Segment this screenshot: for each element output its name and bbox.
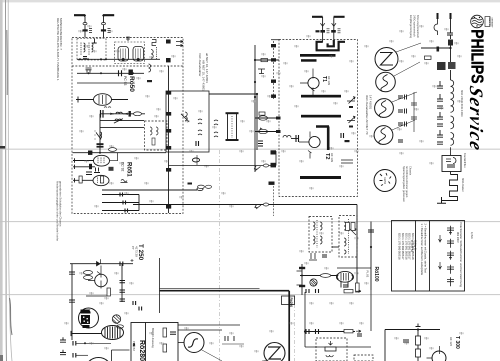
tube Rö280 striped anode bbox=[102, 326, 124, 340]
grid wire b bbox=[73, 165, 95, 169]
rail cap a dark bbox=[299, 267, 305, 269]
tube Rö100 envelope bbox=[337, 271, 353, 282]
inner can resistor bbox=[152, 138, 155, 145]
plus polarity mark bbox=[131, 259, 134, 262]
junction dot bbox=[449, 47, 451, 49]
cap C56 bbox=[357, 334, 362, 336]
wire cap dark a bbox=[271, 163, 277, 168]
rail cap t2 bbox=[69, 300, 75, 302]
cap C60 bbox=[120, 262, 123, 267]
W4 waveform bbox=[379, 128, 386, 145]
cathode components cluster bbox=[86, 172, 92, 175]
antenna A4 downlead bbox=[333, 17, 335, 42]
label Rö50 bbox=[123, 76, 135, 92]
IF transformer top bar bbox=[226, 112, 239, 114]
legend text col3 bbox=[459, 223, 463, 288]
resistor R12 bbox=[261, 59, 268, 62]
rail coil vertical bbox=[96, 132, 102, 139]
svg-text:Service: Service bbox=[465, 84, 486, 154]
rail cap b dark bbox=[299, 285, 305, 287]
sample cluster d bbox=[398, 140, 403, 142]
can M2 coil bbox=[344, 222, 346, 254]
legend divider 2 bbox=[429, 221, 431, 292]
transformer core black top bar bbox=[81, 310, 91, 314]
Philips shield emblem bbox=[471, 15, 484, 28]
legend symbol arrow 1 bbox=[439, 235, 442, 242]
input filter cap bbox=[83, 57, 87, 59]
small hatched tube bbox=[112, 315, 120, 323]
svg-text:T1: T1 bbox=[321, 76, 327, 82]
svg-text:AF 126: AF 126 bbox=[449, 337, 453, 346]
input filter coil 2 loops bbox=[92, 43, 94, 52]
IF output connector bbox=[197, 187, 203, 190]
svg-text:Rö280 H: Rö280 H bbox=[138, 340, 145, 361]
box edge cap dark 2 bbox=[166, 58, 171, 62]
gutter tick mark bbox=[0, 146, 5, 149]
tube socket circle V1 bbox=[374, 170, 396, 192]
staircase ground bbox=[437, 197, 446, 204]
book gutter line 2 bbox=[8, 0, 12, 361]
capacitor C23 bbox=[345, 140, 350, 142]
inline oval b bbox=[263, 203, 268, 206]
capacitor C3 bbox=[86, 68, 92, 73]
drum coil dashed can bbox=[115, 42, 145, 64]
junction dot bbox=[417, 328, 419, 330]
bottom tube arc bbox=[85, 358, 112, 361]
choke coil L8 bbox=[283, 136, 291, 138]
resistor R23 hatched bbox=[448, 62, 456, 69]
label UHF box rotated bbox=[365, 95, 373, 135]
svg-text:60Ω 240Ω 60Ω 240Ω: 60Ω 240Ω 60Ω 240Ω bbox=[460, 90, 464, 116]
label Rö100 bbox=[373, 267, 379, 282]
AGC wire row a bbox=[102, 194, 139, 196]
rail T mark bbox=[297, 271, 302, 285]
chain labels bbox=[460, 90, 464, 116]
capacitor C1 on downlead dark bbox=[83, 29, 88, 31]
trimmer caps dark 2 bbox=[349, 126, 353, 128]
resistor R2 marks bbox=[108, 29, 111, 33]
wire right rail bbox=[370, 290, 372, 331]
resistor R50 bbox=[346, 223, 350, 231]
chain caps 1 bbox=[437, 81, 443, 88]
UHF bypass dashed rail bbox=[273, 41, 275, 100]
third row wire bbox=[100, 127, 144, 129]
bus junction bbox=[99, 152, 101, 154]
capacitor C13 dark bbox=[166, 129, 171, 133]
comp above rail bbox=[416, 324, 421, 327]
svg-text:Bildrohr-Fassung: Bildrohr-Fassung bbox=[151, 328, 155, 348]
IF out arrow 1 bbox=[176, 40, 183, 42]
capacitor C5 dark bbox=[129, 70, 133, 76]
legend symbol row 4 bbox=[447, 265, 454, 274]
rail cap dark pair bbox=[97, 143, 104, 145]
cap C29 dark bbox=[276, 130, 281, 133]
left rail bbox=[71, 264, 73, 340]
bottom caps c3 bbox=[73, 341, 76, 346]
row2 junction dots bbox=[88, 72, 135, 74]
chain caps 2 bbox=[437, 94, 443, 101]
top trimmer on box edge bbox=[126, 37, 130, 42]
transistor T300 circle bbox=[432, 351, 446, 361]
antenna A4 matching arrow bbox=[332, 23, 336, 26]
wire to staircase bbox=[450, 172, 452, 175]
pot symbol bbox=[325, 347, 336, 351]
bottom caps c4 bbox=[73, 353, 76, 358]
test point circle W3 bbox=[375, 99, 394, 118]
VHF tuner dashed enclosure bbox=[72, 38, 183, 214]
wire cap dark b bbox=[271, 150, 277, 154]
grid wire c bbox=[73, 178, 93, 182]
trimmer caps dark bbox=[349, 106, 353, 108]
W3 waveform bbox=[379, 101, 386, 118]
transistor T300 leads bbox=[427, 346, 440, 358]
ground stub bbox=[258, 69, 265, 74]
antenna A3 matching arrow bbox=[320, 23, 324, 26]
wire tuner row 2 bbox=[77, 72, 144, 74]
resistor R20 dark bbox=[448, 40, 453, 46]
emitter rail bbox=[121, 264, 123, 302]
svg-text:GERMANY: GERMANY bbox=[490, 18, 493, 29]
screen row wire bbox=[100, 120, 144, 122]
svg-text:T 300: T 300 bbox=[454, 336, 460, 349]
output box divider bbox=[145, 323, 147, 361]
diode D1 bbox=[259, 128, 265, 132]
output box frame bbox=[131, 323, 178, 361]
VHF tuner input section divider dashed bbox=[72, 65, 183, 67]
svg-text:4,7kΩ: 4,7kΩ bbox=[470, 232, 473, 239]
tuner ground bus wire bbox=[77, 58, 160, 60]
osc squiggle right bbox=[121, 179, 128, 182]
rail label marks bbox=[94, 130, 96, 140]
scurve waveform bbox=[188, 339, 198, 347]
test point circle W4 bbox=[374, 126, 393, 145]
AGC wire lower bbox=[305, 331, 355, 333]
trimmer TR2 bbox=[347, 116, 355, 123]
resistor R5 bbox=[79, 176, 82, 183]
svg-text:MONCKEBERGSTR. 7: MONCKEBERGSTR. 7 bbox=[59, 18, 63, 50]
can M2 trimmer bbox=[350, 228, 356, 235]
svg-text:PL 83: PL 83 bbox=[366, 271, 370, 278]
resistor R11 marks bbox=[338, 29, 341, 33]
contact filter box bbox=[442, 156, 461, 172]
antenna A2 dipole bar bbox=[103, 15, 114, 16]
svg-text:60Ω-Kabel: 60Ω-Kabel bbox=[461, 178, 465, 192]
component cluster below M1 bbox=[309, 253, 317, 260]
diode D2 bbox=[96, 259, 101, 266]
pointer line 4 bbox=[392, 120, 415, 130]
cap C53 bbox=[316, 289, 319, 293]
transistor T1 leads bbox=[300, 69, 315, 96]
filter loop chain start bbox=[451, 80, 454, 99]
svg-text:T2: T2 bbox=[324, 153, 330, 160]
junction dot v1 bbox=[301, 275, 303, 277]
legend symbol row 5 bbox=[447, 277, 454, 286]
mid bus wire bbox=[73, 152, 167, 154]
tube Rö51a envelope bbox=[94, 155, 110, 166]
capacitor C2 on downlead dark bbox=[101, 29, 106, 31]
pot wiper bbox=[329, 341, 333, 345]
drum coil form B contact bbox=[137, 58, 140, 61]
grid wire a bbox=[73, 158, 94, 162]
resistor R7 bbox=[259, 112, 265, 115]
pot coil bbox=[326, 355, 333, 357]
shieldbox feed wire bbox=[209, 93, 257, 95]
tube Rö50 electrodes bbox=[99, 95, 106, 104]
junction dots bbox=[84, 342, 86, 344]
label Rö280H bbox=[138, 340, 145, 361]
can M2 core bbox=[348, 219, 350, 254]
label T300 sub bbox=[449, 337, 453, 346]
svg-text:961 230V: 961 230V bbox=[456, 232, 459, 243]
UHF line bar B4 bbox=[301, 115, 341, 118]
resistor R6 bbox=[101, 176, 104, 183]
grid stopper cluster circle bbox=[310, 279, 317, 286]
contrast pot dashed box bbox=[316, 338, 347, 361]
Service script rotated bbox=[465, 84, 486, 154]
UHF left feed rail bbox=[254, 45, 256, 172]
box inner cap bbox=[170, 332, 176, 334]
book gutter line left bbox=[6, 0, 7, 361]
resistor R14 oval bbox=[259, 129, 268, 133]
T300 frame top wire bbox=[385, 329, 440, 331]
sample riser wire bbox=[413, 92, 415, 132]
component value labels (illegible at scan scale) bbox=[65, 25, 463, 353]
riser wire bbox=[305, 292, 371, 347]
publisher note text rotated bbox=[56, 18, 63, 81]
grid cap marks bbox=[104, 106, 111, 109]
bus junction dots bbox=[79, 58, 107, 60]
balun terminal 1 bbox=[437, 13, 439, 19]
capacitor C41 dark bbox=[437, 47, 440, 52]
UHF line meander bottom bbox=[316, 42, 345, 51]
UHF line bar B2 bbox=[301, 59, 317, 62]
cathode cluster a bbox=[94, 168, 100, 173]
resistor R52 bbox=[320, 274, 330, 278]
anode row resistor oval bbox=[134, 112, 142, 116]
mixer out wire bbox=[341, 160, 353, 163]
tube Rö50 envelope bbox=[94, 94, 112, 106]
resistor R1 marks bbox=[89, 29, 92, 33]
grid cap dark bbox=[89, 164, 92, 169]
drum coil form A hatch bbox=[121, 49, 126, 59]
capacitor C8 bbox=[120, 193, 123, 197]
antenna A1 connector bbox=[83, 23, 87, 25]
capacitor C20b bbox=[316, 30, 320, 32]
scurve circle W5 bbox=[184, 333, 204, 353]
IF coil L7 with arrow bbox=[181, 112, 189, 122]
chain caps 3 bbox=[437, 112, 443, 119]
filter loop 3 bbox=[451, 116, 454, 129]
junction dot f3 bbox=[254, 96, 256, 98]
gutter brace curve bbox=[10, 298, 13, 335]
rail cap dark pair b bbox=[97, 146, 104, 148]
small comp below box bbox=[196, 155, 198, 165]
svg-text:Gültig für: Gültig für bbox=[413, 240, 417, 251]
svg-text:gesonderten Schaltplan des Cha: gesonderten Schaltplan des Chassis bbox=[59, 181, 63, 227]
T300 frame left wire bbox=[384, 330, 386, 361]
tube pins down bbox=[341, 282, 348, 288]
label T2 bbox=[324, 153, 334, 162]
label Rö280H sub bbox=[132, 341, 136, 351]
shield box IF amp bbox=[166, 91, 209, 152]
coupling cap C51 bbox=[368, 230, 374, 232]
transistor T2 circle bbox=[309, 136, 320, 147]
capacitor C6 dark bbox=[147, 80, 152, 82]
hatch white specks bbox=[83, 317, 88, 323]
bus cap dark bbox=[88, 151, 92, 155]
tube Rö50 grid pin bbox=[76, 97, 94, 103]
transformer diagonal gap bbox=[90, 310, 94, 316]
junction dot f1 bbox=[254, 59, 256, 61]
transistor T60 leads bbox=[88, 266, 101, 289]
capacitor C15 dark bbox=[166, 168, 171, 172]
antenna note rotated bbox=[409, 15, 420, 39]
can M1 coil bottom bbox=[313, 236, 322, 244]
test point circle W1 sawtooth bbox=[375, 48, 398, 71]
cap C28 dark bbox=[276, 117, 281, 120]
UHF line bar B3 bbox=[301, 95, 341, 98]
label T1 bbox=[321, 76, 331, 85]
antenna A3 downlead bbox=[322, 17, 324, 42]
antenna A1 dipole bar bbox=[74, 15, 85, 16]
fold line horizontal 1 bbox=[0, 148, 500, 151]
wire ladder mid bbox=[450, 46, 452, 63]
scurve pointer bbox=[201, 350, 222, 361]
junction bus vertical bbox=[138, 195, 140, 211]
fold line horizontal 3 bbox=[0, 293, 500, 296]
component cluster bbox=[258, 141, 263, 146]
chain caps 4 bbox=[437, 130, 443, 137]
drum coil form A contact bbox=[122, 58, 125, 61]
audio input wire bbox=[70, 263, 133, 265]
UHF tuner dashed enclosure bbox=[279, 40, 358, 197]
label T250 sub bbox=[131, 246, 138, 257]
wire ladder top bbox=[450, 19, 452, 39]
pointer line 1 bbox=[396, 43, 421, 52]
IF out arrow 2 bbox=[176, 44, 183, 46]
capacitor C20 bbox=[320, 30, 325, 33]
resistor R60 oval bbox=[84, 271, 93, 275]
svg-text:AF 139: AF 139 bbox=[330, 153, 334, 162]
transistor T1 circle bbox=[308, 77, 319, 88]
contact filter inner cap bbox=[447, 165, 455, 167]
resistor R62 bbox=[107, 288, 110, 296]
capacitor C4 bbox=[119, 70, 122, 76]
legend symbol row 2 bbox=[447, 239, 454, 248]
cap C62 bbox=[120, 290, 126, 292]
transformer core hatched center bbox=[81, 315, 90, 324]
capacitor C24 dark bbox=[271, 44, 276, 47]
antenna A3 dipole bar bbox=[312, 16, 323, 18]
anode row arrowheads bbox=[110, 113, 127, 115]
screen row coil arrow bbox=[114, 119, 123, 124]
row2 coil bbox=[149, 64, 151, 72]
IF decoupling rail bbox=[168, 66, 170, 213]
inline oval a bbox=[263, 164, 268, 167]
input filter coil 2 bbox=[88, 43, 90, 56]
transistor T2 leads bbox=[299, 132, 312, 159]
junction dot bbox=[304, 330, 306, 332]
label contact filter bbox=[463, 153, 467, 168]
rail caps a bbox=[133, 301, 136, 305]
svg-text:147 43801: 147 43801 bbox=[369, 95, 373, 110]
PHILIPS wordmark rotated bbox=[467, 29, 487, 83]
note text rotated bbox=[402, 166, 412, 202]
cap left bbox=[403, 340, 409, 342]
trimmer TR1 bbox=[347, 97, 355, 104]
socket pins bbox=[380, 173, 392, 186]
input filter coil 1 loops bbox=[84, 43, 86, 52]
tube Rö50 anode wire bbox=[112, 99, 129, 101]
bottom oval resistor bbox=[109, 148, 117, 152]
socket label bbox=[383, 177, 386, 185]
antenna A1 downlead wire bbox=[84, 17, 86, 38]
resistor R10 marks bbox=[327, 29, 330, 33]
page top edge shading bbox=[0, 0, 500, 2]
svg-text:Rö50: Rö50 bbox=[128, 76, 135, 92]
test point circle W6 sawtooth bbox=[262, 343, 285, 361]
anode rail bbox=[370, 222, 372, 291]
T300 inner rail bbox=[417, 330, 419, 361]
input ground T bbox=[92, 39, 96, 44]
capacitor C16 dark bbox=[166, 205, 171, 209]
pointer line 3 bbox=[392, 92, 417, 102]
input filter coil 1 bbox=[80, 43, 82, 56]
box text bbox=[151, 328, 155, 348]
feed wire r1 bbox=[255, 59, 279, 61]
capacitor C22 bbox=[341, 133, 344, 138]
chain caps 2b bbox=[437, 106, 443, 108]
chain caps 4b bbox=[437, 142, 443, 144]
anode row coil with arrows bbox=[111, 112, 126, 114]
video out wire upper bbox=[160, 288, 260, 290]
can M1 coil top bbox=[313, 222, 322, 230]
junction dot bbox=[256, 93, 258, 95]
svg-text:alt NET 10, 147 42801: alt NET 10, 147 42801 bbox=[205, 53, 209, 83]
antenna A2 connector bbox=[102, 23, 106, 25]
feeder wire left bbox=[421, 47, 451, 49]
emblem side box text bbox=[488, 18, 493, 29]
corner box bottom bbox=[112, 350, 130, 361]
cap C30 bbox=[296, 135, 299, 142]
IF transformer bottom bar bbox=[226, 139, 239, 141]
legend text col3b bbox=[456, 232, 473, 243]
test point circle W2 bbox=[376, 72, 396, 92]
label T300 bbox=[454, 336, 460, 349]
label Rö100 sub bbox=[366, 271, 370, 278]
tube Rö51b envelope bbox=[93, 175, 109, 185]
svg-text:2: 2 bbox=[133, 343, 135, 347]
junction dot f2 bbox=[254, 81, 256, 83]
svg-text:AF 139: AF 139 bbox=[327, 76, 331, 85]
anode row T-cap bbox=[101, 110, 104, 118]
resistor R55 bbox=[344, 330, 353, 333]
small oval resistor b bbox=[117, 325, 124, 328]
capacitor C40 bbox=[447, 33, 453, 35]
video output long wire bbox=[133, 205, 357, 291]
capacitor C14 dark bbox=[166, 146, 171, 150]
rail caps b bbox=[139, 307, 142, 311]
filter loop 2 bbox=[451, 100, 454, 113]
wire M1-M2 link bbox=[332, 246, 339, 248]
capacitor C50 bbox=[322, 255, 327, 257]
capacitor C27 dark bbox=[271, 95, 276, 98]
pointer line 2 bbox=[394, 62, 420, 76]
takeoff cap row x bbox=[69, 341, 71, 343]
svg-text:Kontaktfilter: Kontaktfilter bbox=[463, 153, 467, 168]
misc caps right of scurve bbox=[225, 336, 234, 341]
svg-text:Rö250: Rö250 bbox=[383, 177, 386, 185]
